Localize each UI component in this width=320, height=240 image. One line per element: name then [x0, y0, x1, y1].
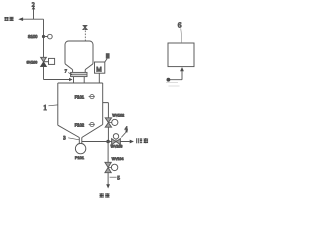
pump P101 circle	[75, 143, 85, 153]
leader for 6	[180, 28, 183, 42]
valve WV103 body	[112, 139, 121, 145]
wire: dashed line from X to hopper	[84, 31, 86, 42]
svg-text:F102: F102	[75, 123, 85, 128]
sensor F101 symbol	[89, 95, 95, 99]
valve WV103 actuator circle	[115, 139, 117, 142]
wire: solvent feed horizontal	[23, 18, 44, 20]
hopper vessel	[65, 41, 93, 70]
svg-text:7: 7	[65, 69, 68, 74]
arrow down to storage	[106, 184, 110, 188]
wire: SV100 actuator link	[44, 61, 49, 63]
valve WV102 actuator circle	[108, 122, 111, 124]
valve WV102 body	[105, 118, 111, 127]
svg-text:F101: F101	[75, 95, 85, 100]
leader for 3	[68, 138, 79, 140]
faint note text	[166, 83, 180, 87]
arrow leader from 7	[68, 72, 71, 74]
tank outlet stub	[79, 138, 82, 144]
svg-text:5: 5	[117, 176, 120, 182]
svg-text:WV104: WV104	[112, 157, 124, 161]
label solvent (youbai)	[4, 17, 13, 21]
hopper neck	[73, 70, 86, 73]
valve SV100 body	[41, 57, 47, 66]
arrow up into box 6	[180, 67, 184, 71]
valve SV100 actuator box	[49, 58, 55, 64]
svg-text:1: 1	[43, 103, 47, 112]
arrow to solvent (left arrowhead)	[18, 17, 23, 21]
wire: down branch to storage	[107, 142, 109, 185]
wire: connector to S100 sensor	[44, 36, 48, 38]
sensor S100 circle	[48, 34, 53, 39]
valve WV104 actuator circle	[108, 167, 111, 169]
sensor F102 symbol	[89, 122, 95, 126]
wire: branch up to 2	[33, 9, 35, 19]
leader for 5	[110, 176, 117, 178]
feeder box	[71, 72, 87, 76]
svg-text:3: 3	[63, 137, 66, 142]
tank 1 body	[58, 83, 103, 138]
leader for 1	[48, 104, 57, 107]
node main junction	[106, 140, 110, 144]
arrow into feeder	[69, 78, 72, 81]
feeder outlet neck	[74, 77, 85, 83]
wire: feed into tank (horizontal)	[44, 79, 70, 81]
svg-text:M: M	[96, 66, 102, 73]
valve WV104 body	[105, 162, 111, 172]
svg-text:S100: S100	[28, 34, 38, 39]
motor M box	[95, 62, 105, 73]
svg-text:6: 6	[178, 21, 182, 30]
box 6	[168, 43, 194, 67]
wire: branch to 4	[121, 132, 126, 137]
label haishutsu	[136, 138, 148, 143]
arrow up-right to 4	[125, 130, 128, 133]
wire: main vertical feed pipe	[43, 19, 45, 79]
wire: motor shaft	[98, 73, 100, 83]
svg-text:P101: P101	[75, 155, 84, 160]
svg-text:WV102: WV102	[112, 113, 124, 117]
svg-text:WV103: WV103	[111, 145, 123, 149]
node dot at inlet line	[167, 78, 171, 82]
motor flag link	[105, 59, 107, 62]
wire: tank side takeoff	[103, 103, 109, 142]
node junction at S100	[42, 35, 45, 38]
wire: bottom discharge line	[82, 141, 130, 143]
arrow up to 2	[32, 6, 36, 9]
label chozou (storage)	[99, 193, 109, 198]
svg-text:SV100: SV100	[27, 61, 38, 65]
motor flag	[106, 53, 110, 58]
wire: inlet to box 6	[169, 71, 183, 80]
arrow discharge right	[130, 140, 134, 144]
